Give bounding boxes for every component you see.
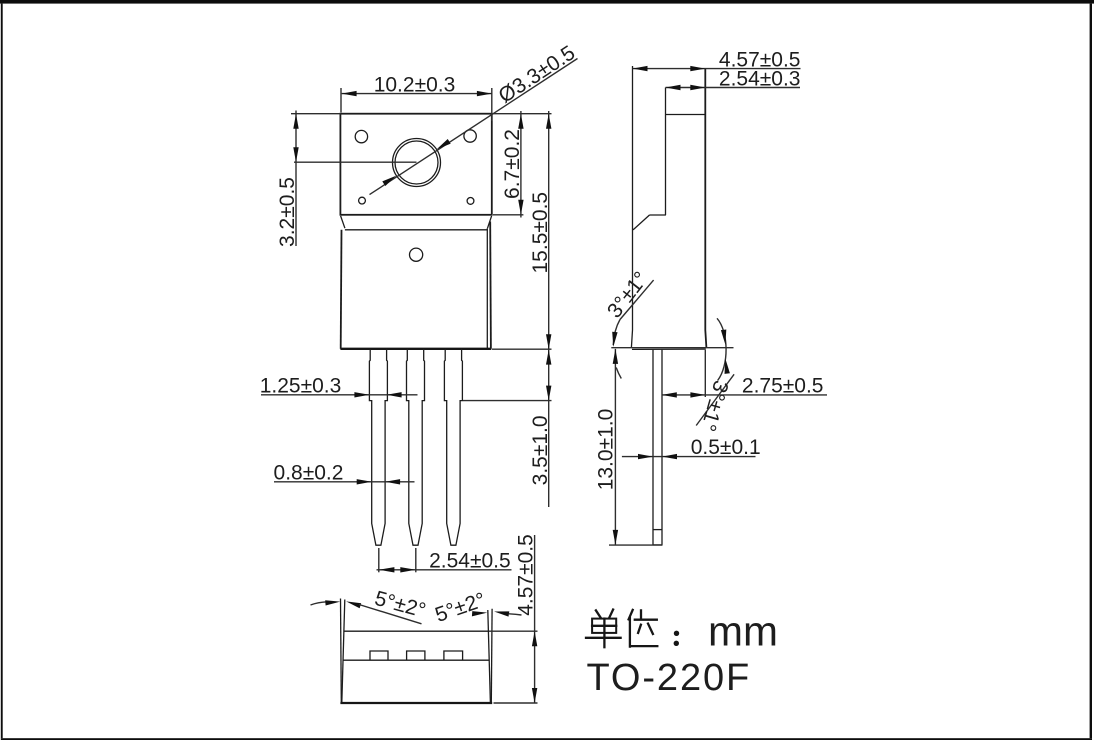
svg-text:TO-220F: TO-220F [587, 657, 752, 699]
svg-text:13.0±1.0: 13.0±1.0 [595, 409, 618, 491]
svg-text:6.7±0.2: 6.7±0.2 [501, 129, 524, 199]
dimension 10.2±0.3 [341, 73, 492, 121]
angle dimension 5°±2° left [311, 587, 429, 624]
svg-text:4.57±0.5: 4.57±0.5 [515, 534, 538, 616]
front view: mounting hole inner circle [395, 141, 438, 184]
dimension 3.5±1.0 [463, 350, 552, 507]
front view: top-right small hole [464, 130, 476, 142]
svg-text:mm: mm [708, 607, 778, 654]
svg-text:3°±1°: 3°±1° [603, 268, 653, 323]
dimension 6.7±0.2 [493, 111, 524, 218]
svg-text:Ø3.3±0.5: Ø3.3±0.5 [495, 41, 580, 107]
dimension 2.54±0.5 (lead pitch) [377, 548, 512, 573]
front view: bottom-left tiny hole [359, 197, 366, 204]
svg-text:3.5±1.0: 3.5±1.0 [529, 415, 552, 485]
dimension 13.0±1.0 [595, 349, 663, 545]
dimension 3.2±0.5 [276, 111, 417, 247]
bottom view outline [340, 599, 492, 704]
svg-text:10.2±0.3: 10.2±0.3 [374, 73, 456, 96]
leader and label Ø3.3±0.5 for mounting hole [370, 41, 580, 194]
svg-text:2.54±0.3: 2.54±0.3 [719, 67, 801, 90]
dimension 4.57±0.5 (side view width) [633, 49, 801, 72]
bottom view: lead 2 cross-section notch [407, 651, 425, 660]
svg-text:0.5±0.1: 0.5±0.1 [691, 436, 761, 459]
front view: lower body center hole [410, 248, 423, 261]
front view: shoulder chamfers [341, 216, 492, 230]
unit note 单位：mm [586, 607, 778, 654]
front view: lead 1 [369, 349, 387, 545]
front view: lead 2 [407, 349, 425, 545]
svg-text:5°±2°: 5°±2° [432, 588, 488, 627]
svg-text:15.5±0.5: 15.5±0.5 [529, 192, 552, 274]
front view: mounting hole outer circle [393, 139, 441, 187]
front view: lower body outline [340, 222, 491, 349]
dimension 0.8±0.2 [274, 461, 415, 484]
fullwidth colon ： [674, 631, 679, 636]
angle dimension 5°±2° right [432, 588, 521, 627]
dimension 2.54±0.3 (tab thickness) [666, 67, 801, 90]
dimension 1.25±0.3 [260, 374, 418, 397]
front view: lead 3 [444, 349, 462, 545]
dimension 0.5±0.1 (lead thickness) [622, 436, 761, 459]
package name TO-220F [587, 657, 752, 699]
hanzi 位 [629, 610, 633, 620]
svg-text:1.25±0.3: 1.25±0.3 [260, 374, 342, 397]
svg-text:3.2±0.5: 3.2±0.5 [276, 177, 299, 247]
bottom view: lead 3 cross-section notch [444, 651, 463, 660]
svg-text:3°±1°: 3°±1° [696, 378, 732, 434]
angle dimension 3°±1° left [603, 268, 654, 379]
svg-text:2.75±0.5: 2.75±0.5 [742, 374, 824, 397]
side view outline [611, 66, 733, 349]
svg-text:0.8±0.2: 0.8±0.2 [274, 461, 344, 484]
front view: bottom-right tiny hole [467, 198, 474, 205]
side view: lead [653, 350, 662, 545]
dimension 4.57±0.5 (bottom view height) [489, 534, 538, 703]
dimension 15.5±0.5 [492, 111, 552, 349]
bottom view: lead 1 cross-section notch [370, 651, 388, 660]
angle dimension 3°±1° right [696, 318, 734, 434]
dimension 2.75±0.5 [662, 350, 827, 398]
svg-text:2.54±0.5: 2.54±0.5 [429, 549, 511, 572]
hanzi 单 [596, 610, 601, 617]
front view: top-left small hole [355, 130, 367, 142]
front view: header tab plate outline [340, 114, 491, 215]
